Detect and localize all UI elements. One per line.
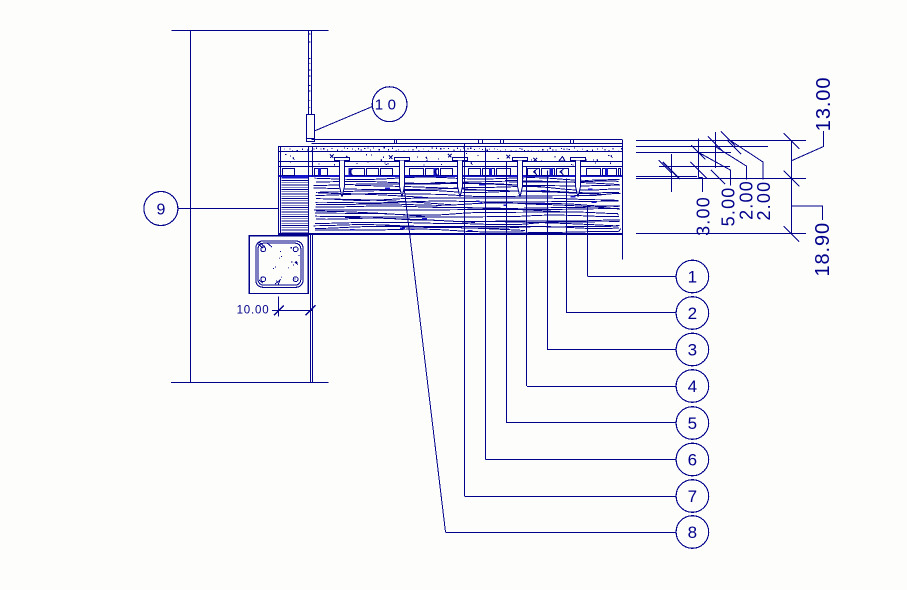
dim 18.90 label xyxy=(792,206,823,220)
small triangle mark xyxy=(559,157,565,162)
leader callout 10 xyxy=(315,107,373,131)
tiny arrow marks xyxy=(292,157,295,161)
leader callout 1 xyxy=(587,206,589,277)
floor bottom line xyxy=(278,233,622,235)
dim 10.00 ticks xyxy=(274,305,284,315)
callout circle 4 xyxy=(676,370,709,403)
svg-text:13.00: 13.00 xyxy=(813,77,835,132)
ext line floor bottom long xyxy=(636,233,806,235)
screed top line xyxy=(278,146,622,148)
svg-text:2: 2 xyxy=(688,304,697,323)
railing post xyxy=(308,30,310,114)
wood end-grain cap band xyxy=(282,178,309,232)
dim 10.00 line xyxy=(272,310,312,312)
scribbles near nail heads xyxy=(330,155,334,159)
bent leader to 5.00 xyxy=(699,152,731,185)
cluster slashes xyxy=(691,145,705,159)
callout circle 6 xyxy=(676,443,709,476)
tile row bottom thick line xyxy=(278,175,622,177)
bent leader to 2.00 a xyxy=(715,146,746,179)
board joint ticks xyxy=(394,139,396,143)
column scribbles xyxy=(257,242,272,248)
svg-text:7: 7 xyxy=(688,487,697,506)
svg-text:9: 9 xyxy=(156,201,165,218)
leader callout 8 (diagonal) xyxy=(404,187,446,533)
callout circle 2 xyxy=(676,297,709,330)
svg-text:5: 5 xyxy=(688,414,697,433)
wall top line xyxy=(172,30,329,32)
wall left edge xyxy=(190,30,192,383)
bent leader to 2.00 b xyxy=(731,141,763,180)
leader callout 5 xyxy=(506,161,508,423)
vertical dimension line xyxy=(791,140,793,234)
svg-text:6: 6 xyxy=(688,451,697,470)
svg-text:3: 3 xyxy=(688,341,697,360)
column outer square xyxy=(249,236,308,294)
grain dashes xyxy=(350,185,596,231)
callout circle 1 xyxy=(676,260,709,293)
nails (5 fixings) xyxy=(335,158,350,198)
leader callout 6 xyxy=(485,148,487,460)
wall bottom line xyxy=(171,382,329,384)
svg-text:18.90: 18.90 xyxy=(812,222,834,277)
ext line screed xyxy=(636,152,731,154)
rebar corner circles xyxy=(261,247,266,252)
leader callout 9 xyxy=(178,208,278,210)
wood grain swoops xyxy=(330,199,455,205)
ext line board bottom xyxy=(636,146,768,148)
svg-text:8: 8 xyxy=(688,523,697,542)
callout circle 5 xyxy=(676,407,709,440)
column inner rounded rect (double) xyxy=(256,241,303,287)
sparse marks xyxy=(285,154,611,166)
svg-text:3.00: 3.00 xyxy=(693,196,713,236)
bottom-right corner stub xyxy=(622,234,624,259)
svg-text:10: 10 xyxy=(375,97,401,114)
ext line tile top xyxy=(659,166,730,168)
svg-text:4: 4 xyxy=(688,377,697,396)
wood grain hatching xyxy=(315,177,620,180)
ext line tile bottom xyxy=(636,176,697,178)
tile row xyxy=(283,169,295,176)
svg-text:5.00: 5.00 xyxy=(719,186,739,226)
screed bottom line xyxy=(278,151,622,153)
svg-text:2.00: 2.00 xyxy=(754,181,774,221)
tile gap fills xyxy=(318,168,321,176)
ext line wood top long xyxy=(636,178,806,180)
callout circle 7 xyxy=(676,480,709,513)
floor left edge double line xyxy=(278,147,280,234)
tile joint bow-tie marks xyxy=(349,169,353,175)
dim 10.00 extension line xyxy=(278,296,280,316)
leader callout 3 xyxy=(547,171,549,350)
callout circle 10 xyxy=(372,87,407,122)
tile row top line xyxy=(278,166,622,168)
post footer xyxy=(307,115,315,139)
ext line top (board top) xyxy=(636,140,806,142)
assembly right edge xyxy=(622,139,624,234)
svg-text:10.00: 10.00 xyxy=(237,305,270,317)
floor board layer top line xyxy=(311,139,622,141)
callout circle 8 xyxy=(676,516,709,549)
svg-text:1: 1 xyxy=(688,268,697,287)
leader callout 4 xyxy=(526,167,528,386)
leader callout 7 xyxy=(464,144,466,496)
leader callout 2 xyxy=(566,178,568,313)
screed stipple xyxy=(284,148,622,152)
leader verticals cluster xyxy=(671,154,673,192)
callout circle 3 xyxy=(676,333,709,366)
wall lines below floor xyxy=(310,234,312,383)
nail seat line xyxy=(278,161,622,163)
column stipple xyxy=(273,248,299,281)
callout circle 9 xyxy=(144,192,178,226)
floor board layer bottom line xyxy=(311,143,622,145)
cap band right edge / wall line through floor xyxy=(308,147,310,234)
dim ticks on vertical dim line xyxy=(784,133,800,149)
